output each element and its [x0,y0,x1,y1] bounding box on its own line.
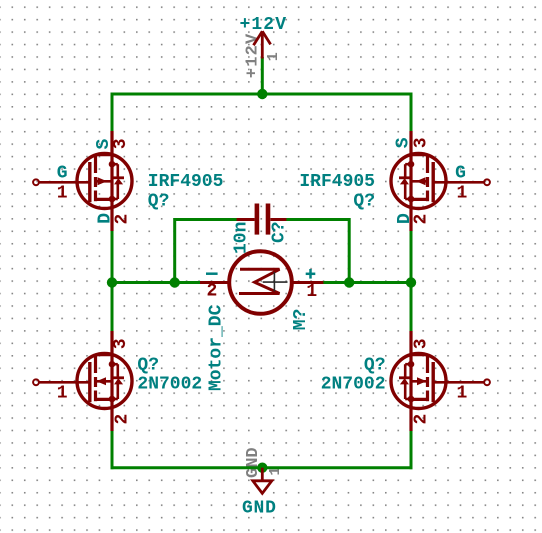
svg-text:G: G [57,163,68,183]
svg-text:+12V: +12V [243,33,262,79]
svg-text:1: 1 [457,183,468,203]
svg-text:3: 3 [412,137,432,148]
svg-text:GND: GND [242,499,277,519]
svg-text:1: 1 [306,282,317,302]
svg-text:IRF4905: IRF4905 [299,172,375,192]
svg-text:2: 2 [412,414,432,425]
svg-text:Q?: Q? [148,192,170,212]
svg-text:Q?: Q? [137,356,159,376]
svg-text:3: 3 [111,338,131,349]
svg-text:10n: 10n [232,222,252,254]
svg-text:M?: M? [291,309,311,331]
svg-text:G: G [455,163,466,183]
svg-text:S: S [393,137,413,148]
svg-text:Motor_DC: Motor_DC [207,304,227,391]
svg-text:2: 2 [207,282,218,302]
svg-text:3: 3 [111,138,131,149]
svg-text:1: 1 [265,52,282,61]
svg-text:1: 1 [57,183,68,203]
svg-text:IRF4905: IRF4905 [148,172,224,192]
svg-text:Q?: Q? [353,192,375,212]
svg-text:2: 2 [112,414,132,425]
svg-text:3: 3 [412,338,432,349]
svg-text:Q?: Q? [364,356,386,376]
svg-text:2N7002: 2N7002 [137,375,202,395]
svg-text:2: 2 [112,214,132,225]
svg-text:C?: C? [270,221,290,243]
svg-text:1: 1 [457,383,468,403]
svg-text:+12V: +12V [240,15,288,35]
svg-text:2N7002: 2N7002 [321,375,386,395]
svg-text:1: 1 [57,383,68,403]
svg-text:2: 2 [412,214,432,225]
svg-text:GND: GND [244,447,263,478]
